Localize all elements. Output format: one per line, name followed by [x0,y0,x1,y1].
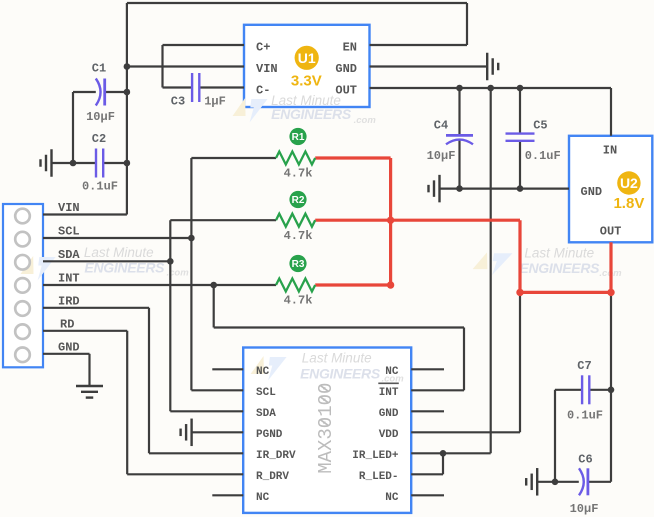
svg-text:C-: C- [256,84,270,98]
svg-text:4.7k: 4.7k [284,294,313,308]
svg-text:U2: U2 [620,175,638,191]
svg-text:10µF: 10µF [570,502,599,516]
svg-text:SDA: SDA [58,248,80,262]
svg-text:PGND: PGND [256,429,283,441]
svg-text:Last Minute: Last Minute [524,245,594,260]
svg-text:10µF: 10µF [86,110,115,124]
svg-text:C2: C2 [92,132,106,146]
svg-text:0.1uF: 0.1uF [567,409,603,423]
svg-text:Last Minute: Last Minute [84,245,154,260]
svg-text:SCL: SCL [256,387,276,399]
svg-text:C7: C7 [577,359,591,373]
svg-text:R_DRV: R_DRV [256,471,289,483]
svg-text:IN: IN [603,144,617,158]
svg-text:GND: GND [581,185,603,199]
svg-text:ENGINEERS: ENGINEERS [519,260,600,276]
svg-text:EN: EN [343,41,357,55]
svg-text:MAX30100: MAX30100 [315,383,337,474]
svg-text:4.7k: 4.7k [284,229,313,243]
svg-text:R3: R3 [292,259,305,270]
svg-text:INT: INT [58,272,80,286]
svg-text:VIN: VIN [58,201,80,215]
svg-text:IRD: IRD [58,294,80,308]
svg-text:NC: NC [256,366,270,378]
svg-text:1.8V: 1.8V [613,195,644,212]
svg-text:SCL: SCL [58,225,80,239]
svg-text:INT: INT [379,387,399,399]
svg-text:C1: C1 [92,62,106,76]
svg-text:ENGINEERS: ENGINEERS [300,366,381,382]
svg-text:1µF: 1µF [204,95,226,109]
svg-text:C+: C+ [256,41,270,55]
svg-text:VIN: VIN [256,62,278,76]
svg-text:OUT: OUT [335,84,357,98]
svg-text:3.3V: 3.3V [291,73,322,90]
svg-text:IR_DRV: IR_DRV [256,450,296,462]
svg-text:OUT: OUT [600,225,622,239]
svg-text:0.1uF: 0.1uF [525,149,561,163]
svg-text:U1: U1 [298,50,316,66]
svg-text:RD: RD [60,317,74,331]
svg-text:NC: NC [385,492,399,504]
svg-text:0.1uF: 0.1uF [82,180,118,194]
svg-text:IR_LED+: IR_LED+ [352,450,399,462]
svg-text:.com: .com [354,115,377,126]
svg-text:NC: NC [256,492,270,504]
svg-text:10µF: 10µF [427,149,456,163]
svg-text:R2: R2 [292,195,305,206]
svg-text:R1: R1 [292,132,305,143]
svg-text:NC: NC [385,366,399,378]
svg-text:GND: GND [58,340,80,354]
svg-text:Last Minute: Last Minute [302,350,372,365]
svg-text:C6: C6 [578,452,592,466]
svg-text:R_LED-: R_LED- [359,471,399,483]
svg-text:GND: GND [335,62,357,76]
svg-text:C5: C5 [533,118,547,132]
svg-text:C4: C4 [434,118,448,132]
svg-text:ENGINEERS: ENGINEERS [271,106,352,122]
svg-text:C3: C3 [171,95,185,109]
svg-text:VDD: VDD [379,429,399,441]
svg-text:GND: GND [379,408,399,420]
svg-text:SDA: SDA [256,408,276,420]
svg-text:4.7k: 4.7k [284,167,313,181]
